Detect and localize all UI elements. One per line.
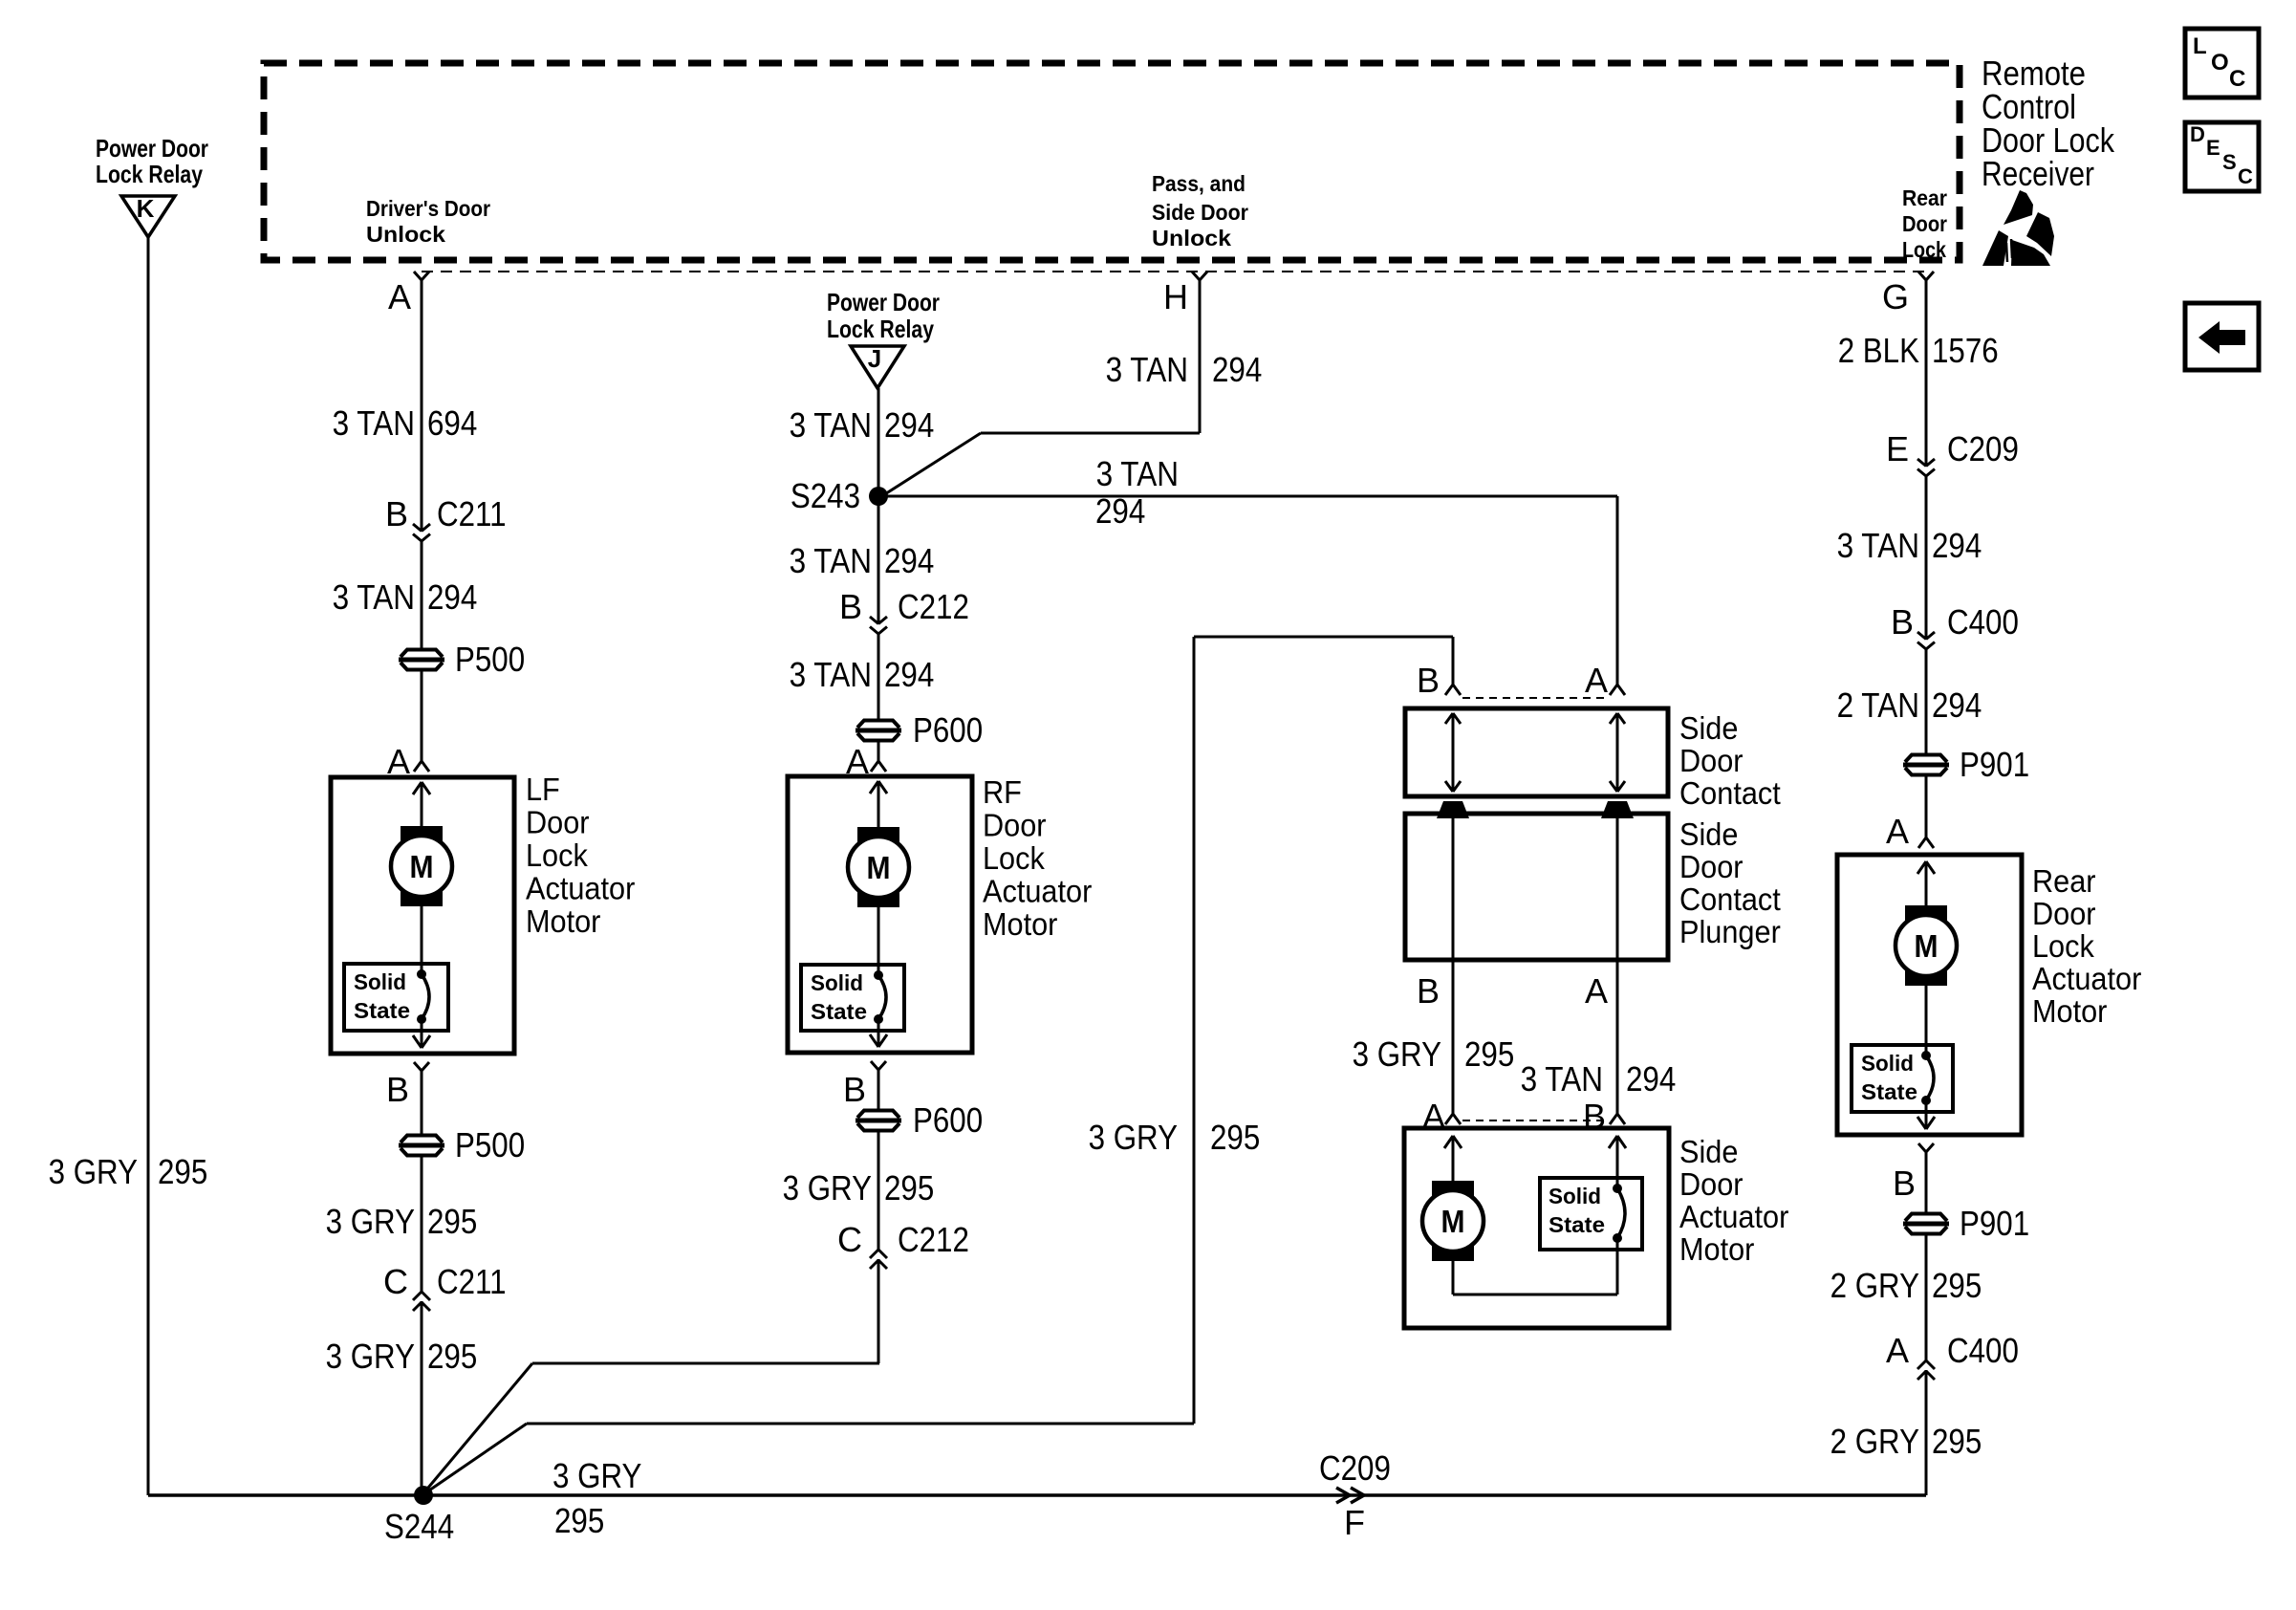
svg-text:3 TAN: 3 TAN: [790, 405, 872, 445]
svg-text:E: E: [1886, 429, 1909, 468]
svg-text:B: B: [1891, 602, 1914, 642]
svg-text:Unlock: Unlock: [366, 222, 445, 247]
svg-text:Solid: Solid: [1549, 1184, 1601, 1208]
svg-text:3 GRY: 3 GRY: [1089, 1118, 1178, 1157]
svg-text:3 GRY: 3 GRY: [783, 1168, 872, 1207]
svg-text:3 TAN: 3 TAN: [790, 541, 872, 580]
svg-text:A: A: [1886, 1331, 1909, 1370]
svg-text:Solid: Solid: [811, 970, 863, 995]
svg-text:Solid: Solid: [1861, 1051, 1914, 1076]
svg-text:Plunger: Plunger: [1679, 914, 1781, 949]
svg-text:Motor: Motor: [526, 903, 600, 939]
svg-text:A: A: [1585, 971, 1608, 1011]
svg-text:P600: P600: [913, 1100, 983, 1140]
svg-text:Door: Door: [1679, 743, 1744, 778]
svg-text:F: F: [1344, 1503, 1365, 1542]
svg-text:M: M: [1915, 928, 1939, 964]
svg-text:C212: C212: [898, 1220, 969, 1259]
svg-text:P600: P600: [913, 710, 983, 750]
svg-text:294: 294: [1932, 526, 1982, 565]
svg-text:State: State: [354, 998, 410, 1023]
svg-text:P901: P901: [1960, 745, 2029, 784]
svg-text:H: H: [1163, 277, 1188, 316]
svg-text:C209: C209: [1319, 1448, 1391, 1488]
svg-text:Door: Door: [2032, 896, 2096, 931]
svg-text:Actuator: Actuator: [526, 871, 635, 906]
svg-text:C: C: [2229, 66, 2245, 92]
svg-text:Actuator: Actuator: [983, 874, 1092, 909]
svg-text:Contact: Contact: [1679, 775, 1781, 811]
svg-text:3 TAN: 3 TAN: [1837, 526, 1919, 565]
svg-text:State: State: [1549, 1212, 1605, 1237]
svg-text:Pass, and: Pass, and: [1152, 171, 1245, 196]
svg-text:295: 295: [1932, 1266, 1982, 1305]
svg-text:Actuator: Actuator: [1679, 1199, 1788, 1234]
svg-text:M: M: [410, 849, 434, 884]
svg-text:3 GRY: 3 GRY: [552, 1456, 641, 1495]
svg-text:A: A: [1585, 661, 1608, 700]
svg-text:C400: C400: [1947, 1331, 2019, 1370]
svg-text:Side Door: Side Door: [1152, 200, 1248, 225]
svg-text:Motor: Motor: [983, 906, 1057, 942]
svg-text:B: B: [843, 1070, 866, 1109]
svg-text:Actuator: Actuator: [2032, 961, 2141, 996]
svg-text:Motor: Motor: [1679, 1231, 1754, 1267]
svg-text:Solid: Solid: [354, 969, 406, 994]
svg-text:B: B: [1893, 1164, 1916, 1203]
svg-text:3 TAN: 3 TAN: [333, 577, 415, 617]
svg-text:3 GRY: 3 GRY: [326, 1202, 415, 1241]
svg-text:B: B: [1417, 971, 1440, 1011]
svg-text:2 BLK: 2 BLK: [1838, 331, 1919, 370]
svg-text:Door: Door: [526, 805, 590, 840]
svg-text:RF: RF: [983, 774, 1022, 810]
svg-text:295: 295: [427, 1337, 477, 1376]
svg-text:C209: C209: [1947, 429, 2019, 468]
svg-text:Power Door: Power Door: [827, 288, 940, 316]
svg-text:M: M: [1441, 1204, 1465, 1239]
svg-text:Contact: Contact: [1679, 881, 1781, 917]
svg-text:Driver's Door: Driver's Door: [366, 196, 490, 221]
svg-text:Motor: Motor: [2032, 993, 2107, 1029]
svg-text:Lock: Lock: [1902, 237, 1946, 262]
svg-text:295: 295: [427, 1202, 477, 1241]
svg-text:3 TAN: 3 TAN: [1521, 1059, 1603, 1099]
svg-text:295: 295: [884, 1168, 934, 1207]
svg-text:State: State: [811, 999, 867, 1024]
svg-text:Door: Door: [1902, 211, 1947, 236]
svg-text:Lock Relay: Lock Relay: [96, 160, 203, 188]
svg-text:295: 295: [1932, 1422, 1982, 1461]
svg-text:3 TAN: 3 TAN: [790, 655, 872, 694]
svg-text:B: B: [386, 1070, 409, 1109]
svg-text:C400: C400: [1947, 602, 2019, 642]
svg-text:C: C: [383, 1262, 408, 1301]
svg-text:2 GRY: 2 GRY: [1830, 1422, 1919, 1461]
svg-text:J: J: [868, 344, 881, 373]
svg-text:Receiver: Receiver: [1982, 154, 2094, 193]
svg-text:Lock: Lock: [526, 838, 588, 873]
svg-text:294: 294: [1626, 1059, 1676, 1099]
svg-text:C212: C212: [898, 587, 969, 626]
svg-text:C: C: [837, 1220, 862, 1259]
svg-text:294: 294: [1932, 685, 1982, 725]
svg-text:E: E: [2206, 136, 2220, 160]
svg-text:294: 294: [427, 577, 477, 617]
svg-text:3 GRY: 3 GRY: [326, 1337, 415, 1376]
svg-text:S244: S244: [384, 1507, 454, 1546]
svg-text:State: State: [1861, 1079, 1917, 1104]
svg-text:3 GRY: 3 GRY: [1353, 1034, 1441, 1074]
svg-text:C211: C211: [437, 494, 507, 533]
svg-text:2 GRY: 2 GRY: [1830, 1266, 1919, 1305]
svg-text:Lock: Lock: [983, 840, 1045, 876]
svg-text:K: K: [137, 194, 155, 223]
svg-text:B: B: [385, 494, 408, 533]
svg-text:C211: C211: [437, 1262, 507, 1301]
svg-text:LF: LF: [526, 772, 560, 807]
svg-text:3 TAN: 3 TAN: [1096, 454, 1179, 493]
svg-text:B: B: [839, 587, 862, 626]
svg-text:294: 294: [884, 405, 934, 445]
svg-text:Side: Side: [1679, 816, 1738, 852]
svg-text:3 GRY: 3 GRY: [49, 1152, 138, 1191]
svg-text:Door: Door: [1679, 849, 1744, 884]
svg-text:L: L: [2193, 33, 2207, 59]
svg-text:3 TAN: 3 TAN: [1106, 350, 1188, 389]
svg-text:694: 694: [427, 403, 477, 443]
svg-text:Lock: Lock: [2032, 928, 2094, 964]
svg-text:295: 295: [1464, 1034, 1514, 1074]
svg-text:Door: Door: [983, 808, 1047, 843]
svg-text:Side: Side: [1679, 710, 1738, 746]
svg-text:D: D: [2190, 122, 2205, 146]
svg-text:295: 295: [158, 1152, 207, 1191]
svg-text:294: 294: [884, 655, 934, 694]
svg-text:294: 294: [1212, 350, 1262, 389]
svg-text:M: M: [867, 850, 891, 885]
svg-text:S: S: [2222, 150, 2237, 174]
svg-text:A: A: [388, 277, 411, 316]
svg-text:Rear: Rear: [1902, 185, 1947, 210]
svg-text:Rear: Rear: [2032, 863, 2096, 899]
svg-text:Lock Relay: Lock Relay: [827, 315, 934, 343]
svg-text:294: 294: [884, 541, 934, 580]
svg-text:O: O: [2211, 50, 2229, 76]
svg-text:S243: S243: [791, 476, 860, 515]
svg-text:G: G: [1882, 277, 1909, 316]
svg-text:2 TAN: 2 TAN: [1837, 685, 1919, 725]
svg-text:Power Door: Power Door: [96, 134, 208, 163]
svg-text:A: A: [1886, 812, 1909, 851]
svg-text:295: 295: [554, 1501, 604, 1540]
svg-text:Door: Door: [1679, 1166, 1744, 1202]
svg-text:Unlock: Unlock: [1152, 226, 1231, 250]
svg-text:B: B: [1417, 661, 1440, 700]
svg-text:P500: P500: [455, 640, 525, 679]
svg-text:P500: P500: [455, 1125, 525, 1164]
svg-text:P901: P901: [1960, 1204, 2029, 1243]
svg-text:C: C: [2238, 164, 2253, 188]
svg-text:3 TAN: 3 TAN: [333, 403, 415, 443]
svg-text:294: 294: [1095, 491, 1145, 531]
svg-text:295: 295: [1210, 1118, 1260, 1157]
svg-text:Side: Side: [1679, 1134, 1738, 1169]
svg-text:1576: 1576: [1932, 331, 1999, 370]
